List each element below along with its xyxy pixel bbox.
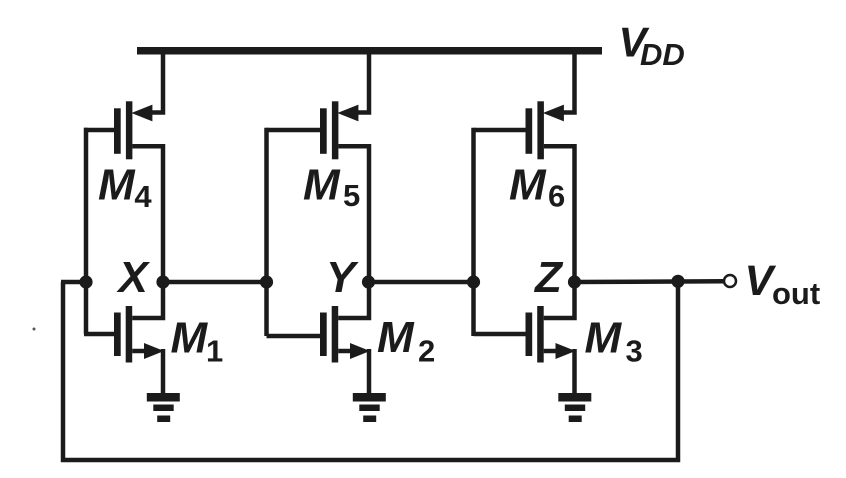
svg-text:M: M: [303, 160, 341, 209]
junction: feedback to gate column 1: [79, 275, 92, 288]
wire: M1 source: [132, 349, 150, 354]
wire: gate column stage 2: [264, 128, 269, 336]
svg-text:M: M: [509, 161, 547, 210]
node Z junction: [568, 275, 581, 288]
transistor M2 (NMOS), gate bar + channel bar + source arrow: [320, 306, 370, 363]
svg-text:Y: Y: [326, 253, 359, 302]
junction: gate column 3: [467, 275, 480, 288]
transistor M6 (PMOS), gate bar + channel bar + source arrow: [526, 101, 564, 159]
wire: gate column stage 1: [84, 128, 89, 334]
node X junction: [156, 275, 169, 288]
wire: M5 source to VDD: [358, 51, 369, 113]
wire: M3 source: [544, 349, 562, 354]
svg-text:1: 1: [206, 334, 223, 369]
wire: node Z to output terminal: [575, 279, 725, 284]
svg-text:Z: Z: [533, 253, 564, 302]
wire: node X to M5/M2 gate column: [163, 280, 267, 285]
stray ink speck from scan: [33, 328, 36, 331]
svg-text:5: 5: [343, 178, 360, 213]
svg-text:M: M: [377, 313, 415, 362]
svg-text:6: 6: [548, 179, 565, 214]
svg-text:X: X: [116, 253, 151, 302]
junction: gate column 2: [260, 275, 273, 288]
wire: M2 drain: [338, 282, 369, 318]
wire: node Y to M6/M3 gate column: [369, 280, 474, 285]
wire: M1 drain: [132, 282, 163, 318]
wire: M3 drain: [544, 282, 575, 318]
svg-text:M: M: [98, 160, 136, 209]
ground (below M2): [353, 393, 386, 422]
output terminal open circle Vout: [724, 275, 736, 287]
transistor M3 (NMOS), gate bar + channel bar + source arrow: [526, 306, 576, 363]
ground (below M1): [147, 393, 180, 422]
svg-text:M: M: [171, 314, 209, 363]
junction: feedback tap at Vout: [671, 275, 684, 288]
svg-text:3: 3: [626, 334, 643, 369]
wire: M2 source: [338, 349, 356, 354]
wire: M6 gate: [474, 128, 526, 133]
transistor M5 (PMOS), gate bar + channel bar + source arrow: [320, 101, 358, 159]
wire: feedback to M4/M1 gate column: [61, 280, 86, 285]
wire: M5 drain: [338, 146, 369, 282]
svg-text:4: 4: [134, 179, 152, 214]
transistor M1 (NMOS), gate bar + channel bar + source arrow: [114, 306, 164, 363]
power rail VDD: [137, 47, 602, 55]
wire: M4 source to VDD: [152, 51, 163, 113]
svg-text:2: 2: [418, 334, 435, 369]
wire: M2 gate: [267, 334, 321, 339]
ground (below M3): [558, 393, 591, 422]
wire: gate column stage 3: [471, 128, 476, 336]
wire: feedback loop Vout to input (left, bottom, right segments): [63, 281, 678, 460]
wire: M4 gate: [84, 128, 114, 133]
wire: M6 drain: [544, 146, 575, 282]
svg-text:M: M: [585, 314, 623, 363]
node Y junction: [362, 275, 375, 288]
wire: M4 drain: [132, 146, 163, 282]
wire: M5 gate: [267, 128, 321, 133]
svg-text:DD: DD: [640, 37, 685, 72]
wire: M3 gate: [474, 332, 526, 337]
transistor M4 (PMOS), gate bar + channel bar + source arrow: [114, 101, 152, 159]
wire: M1 gate: [84, 332, 114, 337]
wire: M6 source to VDD: [564, 51, 575, 113]
svg-text:out: out: [772, 276, 820, 311]
